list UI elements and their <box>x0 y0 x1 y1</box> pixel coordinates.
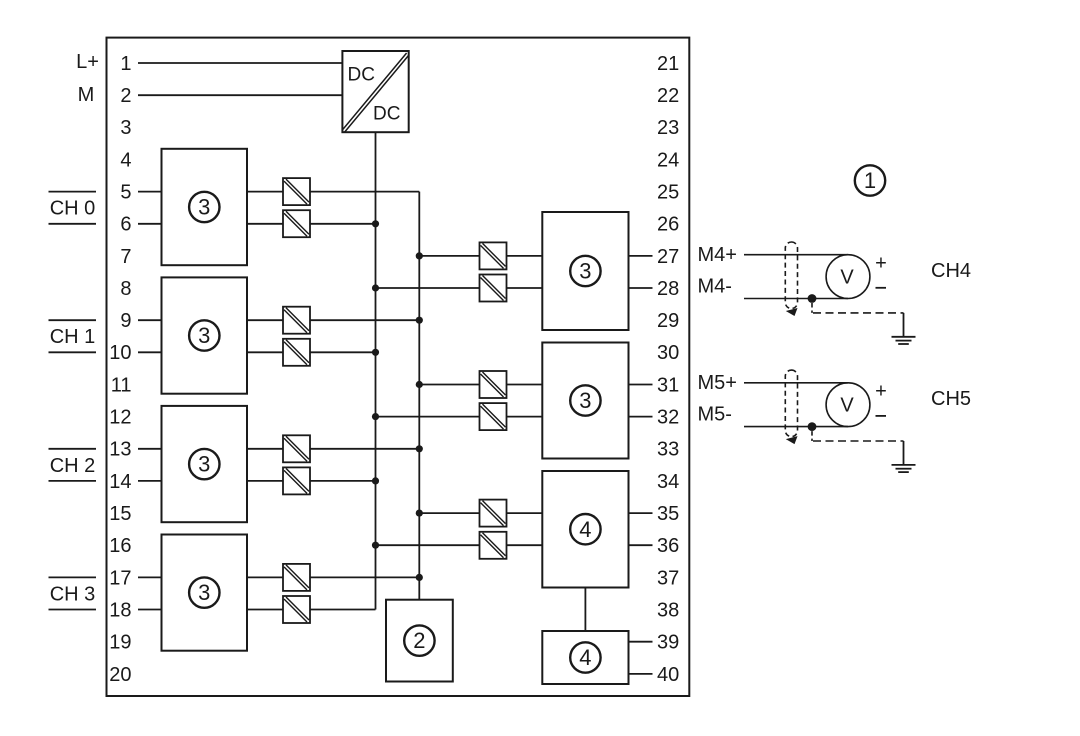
svg-text:V: V <box>840 395 854 417</box>
wire pin 1 (L+) to DC/DC <box>138 62 342 64</box>
internal supply block (2) <box>386 600 453 682</box>
wire connecting block (4) to lower block (4) <box>584 588 586 632</box>
isolation barrier row 28 <box>480 275 507 302</box>
wire M5+ to voltage source <box>744 382 848 384</box>
block (3) rows 26-29 <box>542 212 628 330</box>
wire channel output row 13 <box>247 448 419 450</box>
svg-text:21: 21 <box>657 53 679 75</box>
wire pin 9 to CH 1 block <box>138 319 162 321</box>
junction on right bus at row 9 <box>416 317 423 324</box>
wire channel output row 6 <box>247 223 376 225</box>
svg-text:10: 10 <box>109 342 131 364</box>
svg-text:3: 3 <box>198 195 210 220</box>
circled 3 in block (3) rows 26-29 <box>570 256 600 286</box>
ground symbol (CH5) <box>892 464 916 466</box>
svg-text:DC: DC <box>373 104 400 125</box>
wire pin 17 to CH 3 block <box>138 576 162 578</box>
svg-text:40: 40 <box>657 664 679 686</box>
wire bus to backplane block row 28 <box>376 287 543 289</box>
svg-text:V: V <box>840 267 854 289</box>
svg-text:33: 33 <box>657 439 679 461</box>
svg-text:5: 5 <box>120 182 131 204</box>
svg-text:34: 34 <box>657 471 679 493</box>
svg-text:16: 16 <box>109 535 131 557</box>
svg-text:31: 31 <box>657 374 679 396</box>
junction on left bus at row 14 <box>372 477 379 484</box>
wire pin 5 to CH 0 block <box>138 191 162 193</box>
dashed ground wire from shield junction (CH5) <box>811 431 813 441</box>
junction on left bus at row 28 <box>372 284 379 291</box>
circled 3 in CH 3 block <box>189 577 219 607</box>
circled 4 in block (4) rows 34-37 <box>570 514 600 544</box>
isolation barrier (electrical isolation) row 14 <box>283 467 310 494</box>
junction on left bus at row 6 <box>372 220 379 227</box>
polarity label - for CH5 <box>876 415 887 417</box>
svg-text:32: 32 <box>657 407 679 429</box>
junction on left bus at row 32 <box>372 413 379 420</box>
svg-text:1: 1 <box>864 168 876 193</box>
svg-text:26: 26 <box>657 214 679 236</box>
wire M4- to voltage source <box>744 298 848 300</box>
svg-text:3: 3 <box>579 259 591 284</box>
svg-text:6: 6 <box>120 214 131 236</box>
svg-text:M5-: M5- <box>698 404 732 426</box>
wire M4+ to voltage source <box>744 254 848 256</box>
ground symbol (CH4) <box>892 336 916 338</box>
block (4) rows 39-40 <box>542 631 628 684</box>
isolation barrier row 36 <box>480 532 507 559</box>
wire pin 6 to CH 0 block <box>138 223 162 225</box>
label CH 3 underline <box>49 609 97 611</box>
circled 3 in CH 1 block <box>189 320 219 350</box>
wire channel output row 17 <box>247 576 419 578</box>
svg-text:+: + <box>875 380 887 402</box>
junction on right bus at row 13 <box>416 445 423 452</box>
isolation barrier (electrical isolation) row 18 <box>283 596 310 623</box>
svg-text:14: 14 <box>109 471 131 493</box>
wire channel output row 14 <box>247 480 376 482</box>
junction on right bus at row 35 <box>416 509 423 516</box>
junction on right bus at row 17 <box>416 574 423 581</box>
wire stub to pin 28 <box>629 287 653 289</box>
wire bus to backplane block row 36 <box>376 544 543 546</box>
junction on right bus at row 31 <box>416 381 423 388</box>
block (4) rows 34-37 <box>542 471 628 588</box>
svg-text:13: 13 <box>109 439 131 461</box>
label CH 0 overline <box>49 191 97 193</box>
svg-text:22: 22 <box>657 85 679 107</box>
svg-text:1: 1 <box>120 53 131 75</box>
svg-text:3: 3 <box>198 452 210 477</box>
input circuit block (3) CH 2 <box>162 406 248 522</box>
circled 3 in block (3) rows 30-33 <box>570 385 600 415</box>
wire pin 13 to CH 2 block <box>138 448 162 450</box>
voltage source V for CH5 <box>826 383 870 427</box>
cable shield (dashed) for CH5 <box>785 370 797 437</box>
junction dot on M4- wire <box>808 294 817 303</box>
circled 1 (legend marker) <box>855 165 885 195</box>
svg-text:M4+: M4+ <box>698 244 737 266</box>
svg-text:19: 19 <box>109 632 131 654</box>
dashed ground wire from shield junction (CH4) <box>811 303 813 313</box>
wire stub to pin 39 <box>629 641 653 643</box>
label CH 2 underline <box>49 480 97 482</box>
svg-text:28: 28 <box>657 278 679 300</box>
wire bus to backplane block row 32 <box>376 416 543 418</box>
svg-text:M4-: M4- <box>698 276 732 298</box>
wire stub to pin 31 <box>629 384 653 386</box>
svg-text:23: 23 <box>657 117 679 139</box>
svg-text:18: 18 <box>109 599 131 621</box>
shield pigtail arrowhead for CH5 <box>786 436 798 444</box>
junction dot on M5- wire <box>808 422 817 431</box>
wire bus to backplane block row 31 <box>419 384 542 386</box>
isolation barrier (electrical isolation) row 5 <box>283 178 310 205</box>
svg-text:29: 29 <box>657 310 679 332</box>
junction on left bus at row 10 <box>372 349 379 356</box>
isolation barrier (electrical isolation) row 9 <box>283 307 310 334</box>
wire to ground (CH5) <box>903 441 905 465</box>
junction on left bus at row 36 <box>372 542 379 549</box>
svg-text:3: 3 <box>120 117 131 139</box>
wire bus to backplane block row 27 <box>419 255 542 257</box>
svg-text:2: 2 <box>413 628 425 653</box>
svg-text:3: 3 <box>579 388 591 413</box>
svg-text:12: 12 <box>109 407 131 429</box>
svg-text:+: + <box>875 252 887 274</box>
right bus wire (from row 5 down to block 2) <box>418 192 420 600</box>
label CH 1 underline <box>49 351 97 353</box>
svg-text:L+: L+ <box>76 51 99 73</box>
svg-text:15: 15 <box>109 503 131 525</box>
isolation barrier row 35 <box>480 500 507 527</box>
isolation barrier (electrical isolation) row 13 <box>283 435 310 462</box>
circled 3 in CH 2 block <box>189 449 219 479</box>
svg-text:24: 24 <box>657 149 679 171</box>
wire stub to pin 36 <box>629 544 653 546</box>
svg-text:DC: DC <box>348 65 375 86</box>
svg-text:36: 36 <box>657 535 679 557</box>
label CH 2 overline <box>49 448 97 450</box>
polarity label - for CH4 <box>876 287 887 289</box>
wire bus to backplane block row 35 <box>419 512 542 514</box>
svg-text:CH 0: CH 0 <box>50 198 96 220</box>
svg-text:30: 30 <box>657 342 679 364</box>
wire pin 2 (M) to DC/DC <box>138 94 342 96</box>
input circuit block (3) CH 1 <box>162 277 248 393</box>
circled 2 in block (2) <box>404 625 434 655</box>
wire pin 10 to CH 1 block <box>138 351 162 353</box>
wire M5- to voltage source <box>744 426 848 428</box>
junction on right bus at row 27 <box>416 252 423 259</box>
circled 4 in block (4) rows 39-40 <box>570 642 600 672</box>
svg-text:3: 3 <box>198 323 210 348</box>
voltage source V for CH4 <box>826 255 870 299</box>
isolation barrier (electrical isolation) row 17 <box>283 564 310 591</box>
wire stub to pin 27 <box>629 255 653 257</box>
circled 3 in CH 0 block <box>189 192 219 222</box>
svg-text:4: 4 <box>579 645 591 670</box>
label CH 1 overline <box>49 319 97 321</box>
left bus wire (from DC/DC down to row 18) <box>375 132 377 609</box>
isolation barrier row 31 <box>480 371 507 398</box>
DC/DC converter diagonal double line <box>345 55 409 132</box>
wire channel output row 10 <box>247 351 376 353</box>
svg-text:CH 3: CH 3 <box>50 583 96 605</box>
svg-text:CH4: CH4 <box>931 260 971 282</box>
svg-text:20: 20 <box>109 664 131 686</box>
cable shield (dashed) for CH4 <box>785 242 797 309</box>
wire stub to pin 40 <box>629 673 653 675</box>
isolation barrier row 32 <box>480 403 507 430</box>
isolation barrier row 27 <box>480 242 507 269</box>
input circuit block (3) CH 3 <box>162 535 248 651</box>
svg-text:CH 2: CH 2 <box>50 455 96 477</box>
svg-text:39: 39 <box>657 632 679 654</box>
isolation barrier (electrical isolation) row 6 <box>283 210 310 237</box>
svg-text:M: M <box>78 84 95 106</box>
input circuit block (3) CH 0 <box>162 149 248 265</box>
svg-text:9: 9 <box>120 310 131 332</box>
svg-text:CH 1: CH 1 <box>50 326 96 348</box>
svg-text:11: 11 <box>111 374 132 396</box>
label CH 3 overline <box>49 576 97 578</box>
DC/DC converter U1 <box>342 51 408 132</box>
block (3) rows 30-33 <box>542 343 628 459</box>
svg-text:4: 4 <box>579 517 591 542</box>
svg-text:17: 17 <box>109 567 131 589</box>
svg-text:CH5: CH5 <box>931 388 971 410</box>
wire channel output row 5 <box>247 191 419 193</box>
svg-text:38: 38 <box>657 599 679 621</box>
wire channel output row 9 <box>247 319 419 321</box>
label CH 0 underline <box>49 223 97 225</box>
svg-text:4: 4 <box>120 149 131 171</box>
svg-text:M5+: M5+ <box>698 372 737 394</box>
wire stub to pin 32 <box>629 416 653 418</box>
isolation barrier (electrical isolation) row 10 <box>283 339 310 366</box>
svg-text:2: 2 <box>120 85 131 107</box>
wire pin 18 to CH 3 block <box>138 609 162 611</box>
svg-text:37: 37 <box>657 567 679 589</box>
svg-text:35: 35 <box>657 503 679 525</box>
shield pigtail arrowhead for CH4 <box>786 308 798 316</box>
svg-text:25: 25 <box>657 182 679 204</box>
svg-text:8: 8 <box>120 278 131 300</box>
wire pin 14 to CH 2 block <box>138 480 162 482</box>
svg-text:3: 3 <box>198 580 210 605</box>
wire to ground (CH4) <box>903 313 905 337</box>
wire stub to pin 35 <box>629 512 653 514</box>
wire channel output row 18 <box>247 609 376 611</box>
svg-text:27: 27 <box>657 246 679 268</box>
terminal block frame <box>107 38 690 696</box>
svg-text:7: 7 <box>120 246 131 268</box>
